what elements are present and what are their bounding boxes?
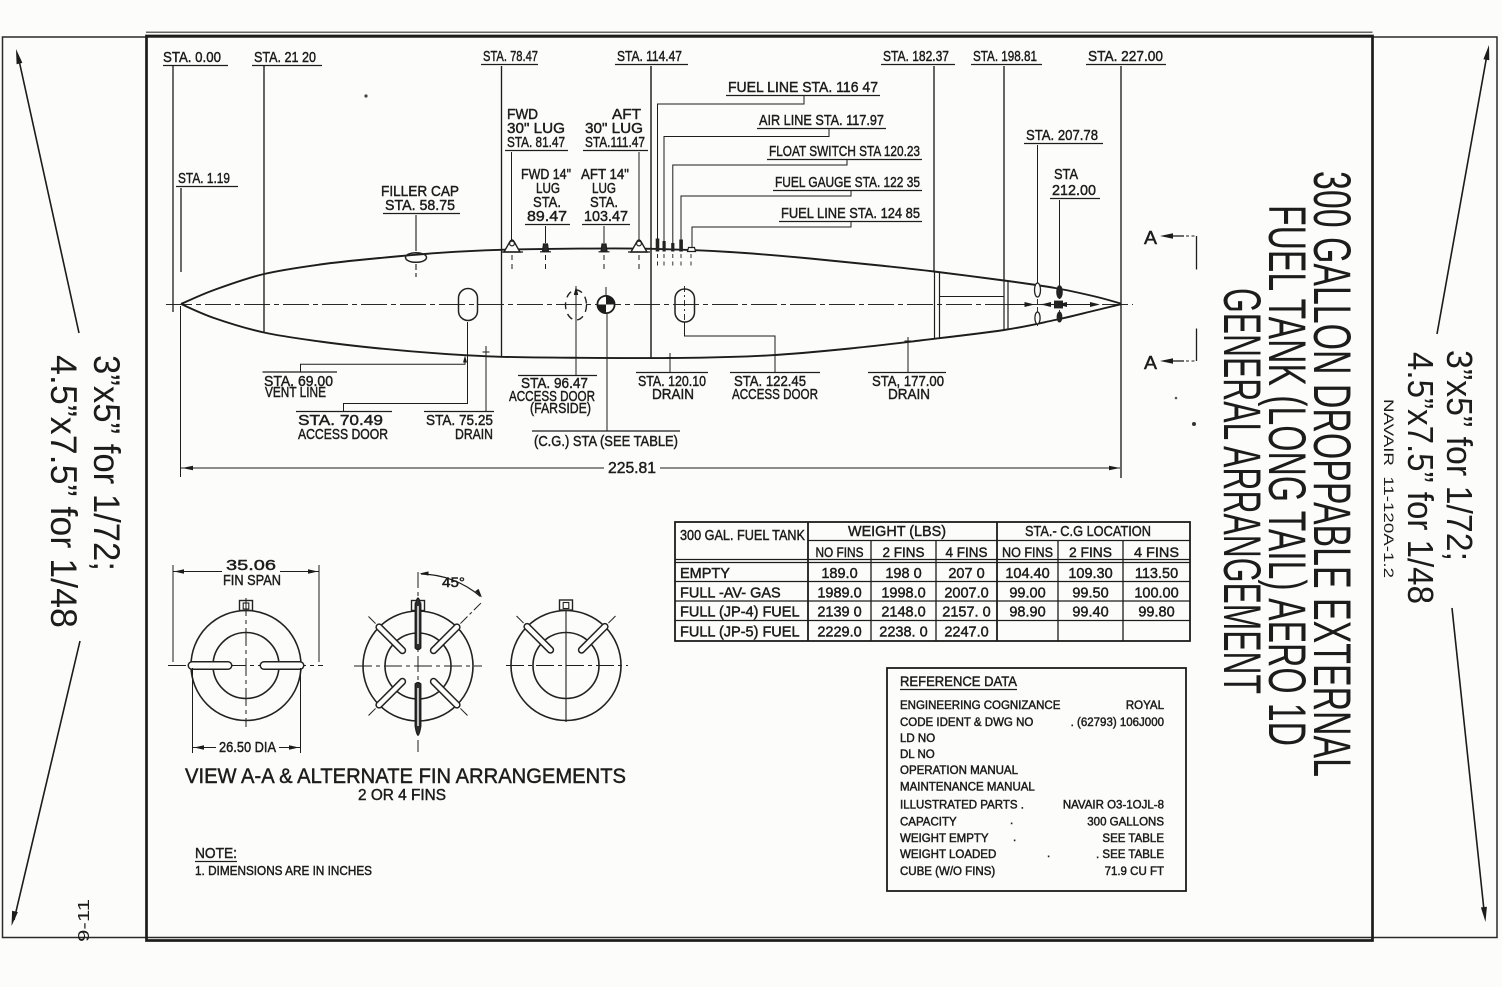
leader STA 96.47 with arrow [575, 291, 577, 376]
title line 2: FUEL TANK (LONG TAIL) AERO 1D [1257, 205, 1316, 746]
svg-text:99.50: 99.50 [1072, 586, 1108, 602]
svg-text:A: A [1144, 353, 1157, 373]
svg-text:STA.111.47: STA.111.47 [585, 134, 645, 151]
right margin note 3x5 for 1/72 [1439, 350, 1480, 561]
svg-text:NOTE:: NOTE: [195, 845, 237, 862]
svg-text:AIR LINE STA. 117.97: AIR LINE STA. 117.97 [759, 112, 884, 129]
svg-text:(C.G.) STA (SEE TABLE): (C.G.) STA (SEE TABLE) [534, 433, 678, 450]
svg-text:GENERAL ARRANGEMENT: GENERAL ARRANGEMENT [1212, 288, 1271, 694]
view2 tank rings [363, 611, 473, 721]
svg-text:71.9 CU FT: 71.9 CU FT [1105, 866, 1164, 878]
view2 diagonal centerlines [434, 602, 482, 650]
svg-text:2 OR 4 FINS: 2 OR 4 FINS [358, 787, 446, 804]
label STA. 120.10 DRAIN [636, 372, 708, 374]
svg-text:FUEL LINE STA. 116 47: FUEL LINE STA. 116 47 [728, 79, 878, 96]
svg-text:MAINTENANCE MANUAL: MAINTENANCE MANUAL [900, 782, 1035, 794]
label (C.G.) STA (SEE TABLE) [532, 430, 680, 432]
svg-text:STA. 81.47: STA. 81.47 [507, 134, 565, 151]
leader STA 212.00 [1059, 200, 1061, 286]
fitting fuel line 124.85 [688, 248, 696, 252]
leader STA 207.78 [1037, 145, 1039, 283]
leader STA 122.45 [685, 323, 776, 373]
svg-text:FUEL GAUGE STA. 122 35: FUEL GAUGE STA. 122 35 [775, 174, 920, 191]
svg-text:. (62793) 106J000: . (62793) 106J000 [1071, 717, 1164, 729]
reference data box [887, 668, 1186, 891]
left margin arrow up [19, 58, 80, 333]
view3 top lug [560, 600, 573, 610]
svg-text:STA. 1.19: STA. 1.19 [178, 170, 230, 187]
svg-text:2 FINS: 2 FINS [883, 544, 925, 560]
leader STA 120.10 [669, 353, 671, 373]
view1 crosshair horizontal [168, 665, 323, 667]
station line STA 198.81 [1003, 66, 1005, 281]
dimension line 225.81 right segment [660, 467, 1120, 469]
CG symbol [597, 296, 614, 313]
svg-text:DRAIN: DRAIN [652, 386, 694, 403]
title line 3: GENERAL ARRANGEMENT [1212, 288, 1271, 694]
svg-text:1989.0: 1989.0 [817, 586, 861, 602]
station line STA 1.19 [180, 188, 182, 272]
svg-text:212.00: 212.00 [1052, 182, 1096, 199]
dia extension lines [192, 668, 194, 753]
fitting fuel line 116.47 [656, 239, 660, 252]
main drawing frame [147, 36, 1373, 941]
leader STA 75.25 [485, 346, 487, 412]
svg-text:207 0: 207 0 [948, 566, 984, 582]
svg-text:STA. 182.37: STA. 182.37 [883, 48, 949, 65]
svg-text:OPERATION MANUAL: OPERATION MANUAL [900, 765, 1019, 777]
svg-text:2139 0: 2139 0 [817, 605, 861, 621]
weight table verticals [807, 522, 809, 641]
fin section lower STA 207.78 [1035, 312, 1040, 324]
svg-text:FUEL LINE STA. 124 85: FUEL LINE STA. 124 85 [781, 205, 920, 222]
NAVAIR 11-120A-1.2 reference [1381, 399, 1397, 578]
svg-text:ILLUSTRATED PARTS .: ILLUSTRATED PARTS . [900, 800, 1024, 812]
right margin arrow down [1452, 608, 1485, 915]
svg-text:98.90: 98.90 [1009, 605, 1045, 621]
CG dashed station circle [566, 290, 587, 320]
45 degree dimension arc [421, 574, 481, 597]
view2 vertical fin blade top [415, 598, 421, 650]
view1 tank rings [191, 611, 301, 721]
title line 1: 300 GALLON DROPPABLE EXTERNAL [1302, 171, 1361, 777]
svg-text:45°: 45° [442, 574, 465, 590]
svg-text:STA. 78.47: STA. 78.47 [483, 48, 538, 65]
lug AFT 30 symbol [631, 240, 647, 252]
fitting hidden stubs [657, 254, 659, 266]
leader STA 70.49 [344, 322, 468, 412]
svg-text:CUBE (W/O FINS): CUBE (W/O FINS) [900, 866, 995, 878]
svg-text:3”x5” for 1/72;: 3”x5” for 1/72; [86, 355, 127, 571]
label STA. 177.00 DRAIN [868, 372, 946, 374]
svg-text:26.50 DIA: 26.50 DIA [219, 739, 276, 756]
svg-text:STA. 21 20: STA. 21 20 [254, 49, 316, 66]
svg-text:DRAIN: DRAIN [455, 426, 493, 443]
svg-text:NAVAIR 11-120A-1.2: NAVAIR 11-120A-1.2 [1381, 399, 1397, 578]
svg-text:ROYAL: ROYAL [1126, 700, 1165, 712]
svg-text:NO FINS: NO FINS [816, 544, 864, 560]
svg-text:WEIGHT LOADED: WEIGHT LOADED [900, 849, 996, 861]
svg-text:STA. 0.00: STA. 0.00 [163, 49, 221, 66]
svg-text:ACCESS DOOR: ACCESS DOOR [298, 426, 388, 443]
lug FWD 30 symbol [504, 240, 520, 252]
tail joint band STA 182.37 [934, 272, 936, 339]
weight table double rule under headers [675, 559, 1190, 561]
svg-text:VIEW A-A & ALTERNATE FIN ARRAN: VIEW A-A & ALTERNATE FIN ARRANGEMENTS [185, 765, 626, 788]
lug AFT 14 symbol [601, 244, 607, 252]
view1 left fin [192, 661, 228, 670]
filler cap tick below [415, 264, 417, 277]
dimension line 225.81 left segment [181, 467, 604, 469]
svg-text:4 FINS: 4 FINS [946, 544, 988, 560]
svg-text:EMPTY: EMPTY [680, 566, 730, 582]
svg-text:CODE IDENT & DWG NO: CODE IDENT & DWG NO [900, 717, 1033, 729]
fitting air line 117.97 [663, 241, 666, 252]
view2 crosshair horizontal [354, 665, 482, 667]
tail joint band STA 198.81 [1003, 281, 1005, 331]
stray speck [1192, 422, 1196, 426]
tank centerline [166, 304, 1133, 306]
svg-text:100.00: 100.00 [1134, 586, 1178, 602]
leader STA 69.00 [301, 357, 466, 372]
svg-text:4.5”x7.5” for 1/48: 4.5”x7.5” for 1/48 [1400, 352, 1441, 604]
svg-text:198 0: 198 0 [885, 566, 921, 582]
svg-text:ACCESS DOOR: ACCESS DOOR [732, 386, 818, 403]
svg-text:DL NO: DL NO [900, 749, 935, 761]
svg-text:99.40: 99.40 [1072, 605, 1108, 621]
svg-text:A: A [1144, 228, 1157, 248]
label STA. 122.45 ACCESS DOOR [730, 372, 820, 374]
station line STA 182.37 [933, 66, 935, 272]
weight table header split line [808, 540, 1190, 542]
view3 crosshair horizontal [506, 665, 628, 667]
fin section upper STA 207.78 [1035, 283, 1041, 297]
svg-text:STA. 227.00: STA. 227.00 [1088, 48, 1163, 65]
fin dimension arrows on centerline [1008, 304, 1030, 306]
svg-text:225.81: 225.81 [608, 460, 656, 477]
view2 diagonal fins [434, 627, 457, 650]
svg-text:STA. 114.47: STA. 114.47 [617, 48, 682, 65]
svg-text:WEIGHT (LBS): WEIGHT (LBS) [848, 523, 946, 540]
view3 diagonal fins [582, 627, 605, 650]
lug leader FWD 30 [511, 152, 513, 240]
left margin note 3x5 for 1/72 [86, 355, 127, 571]
view3 diagonal centerlines [582, 615, 617, 650]
svg-text:1998.0: 1998.0 [881, 586, 925, 602]
svg-text:STA. 207.78: STA. 207.78 [1026, 127, 1098, 144]
svg-text:. SEE TABLE: . SEE TABLE [1096, 849, 1164, 861]
svg-text:WEIGHT EMPTY: WEIGHT EMPTY [900, 833, 989, 845]
svg-text:2238. 0: 2238. 0 [879, 625, 927, 641]
svg-text:REFERENCE DATA: REFERENCE DATA [900, 673, 1018, 689]
lug FWD 14 symbol [543, 244, 549, 252]
svg-text:104.40: 104.40 [1005, 566, 1049, 582]
svg-text:300 GALLONS: 300 GALLONS [1087, 817, 1164, 829]
station line STA 114.47 [650, 66, 652, 358]
svg-text:4.5”x7.5” for 1/48: 4.5”x7.5” for 1/48 [43, 355, 84, 628]
svg-text:STA. 58.75: STA. 58.75 [385, 197, 455, 214]
lug leader AFT 30 [638, 152, 640, 240]
left margin arrow down [14, 641, 80, 920]
tank outline upper [181, 248, 1121, 304]
leader CG [606, 314, 608, 431]
right margin arrow up [1437, 52, 1488, 334]
view3 vertical line [565, 610, 567, 722]
lug leader FWD 14 [545, 226, 547, 243]
svg-text:STA. 198.81: STA. 198.81 [973, 48, 1037, 65]
fitting float switch 120.23 [671, 243, 674, 252]
fin section lower STA 212.00 [1057, 312, 1062, 322]
svg-text:99.00: 99.00 [1009, 586, 1045, 602]
CG vertical dash line [575, 286, 577, 330]
svg-text:9-11: 9-11 [76, 899, 93, 942]
svg-text:FULL (JP-5) FUEL: FULL (JP-5) FUEL [680, 625, 800, 641]
label STA. 75.25 DRAIN [424, 411, 494, 413]
view2 vertical fin blade bottom [415, 683, 421, 736]
view3 tank rings [511, 611, 621, 721]
svg-text:STA: STA [1054, 166, 1078, 183]
filler cap ellipse [406, 253, 427, 263]
svg-text:ENGINEERING COGNIZANCE: ENGINEERING COGNIZANCE [900, 700, 1061, 712]
svg-text:.: . [1013, 832, 1016, 844]
svg-text:300 GAL. FUEL TANK: 300 GAL. FUEL TANK [680, 527, 805, 544]
weight table row rules [675, 581, 1190, 583]
station line STA 0.00 [172, 66, 174, 312]
svg-text:2 FINS: 2 FINS [1069, 544, 1112, 560]
fitting fuel gauge 122.35 [679, 240, 683, 252]
svg-text:.: . [1047, 848, 1050, 860]
svg-text:2247.0: 2247.0 [944, 625, 988, 641]
view2 top lug [412, 601, 425, 611]
label STA. 69.00 VENT LINE [263, 371, 338, 373]
station line STA 78.47 [501, 66, 503, 357]
svg-text:NO FINS: NO FINS [1002, 544, 1053, 560]
tank outline lower [181, 304, 1121, 358]
svg-text:2157. 0: 2157. 0 [942, 605, 990, 621]
svg-text:103.47: 103.47 [584, 208, 628, 225]
svg-text:2229.0: 2229.0 [817, 625, 861, 641]
left margin note 4.5x7.5 for 1/48 [43, 355, 84, 628]
view1 crosshair vertical [245, 598, 247, 727]
access door 122.45 vertical dash [684, 286, 686, 325]
label STA. 96.47 ACCESS DOOR (FARSIDE) [518, 375, 597, 377]
station line STA 227.00 [1120, 66, 1122, 478]
weight table outer box [675, 522, 1190, 641]
svg-text:DRAIN: DRAIN [888, 386, 930, 403]
svg-text:LD NO: LD NO [900, 733, 935, 745]
svg-text:99.80: 99.80 [1138, 605, 1174, 621]
svg-text:FIN SPAN: FIN SPAN [223, 572, 281, 589]
svg-text:SEE TABLE: SEE TABLE [1102, 833, 1164, 845]
svg-text:109.30: 109.30 [1068, 566, 1112, 582]
svg-text:3”x5” for 1/72;: 3”x5” for 1/72; [1439, 350, 1480, 561]
svg-text:FULL -AV- GAS: FULL -AV- GAS [680, 586, 781, 602]
svg-text:189.0: 189.0 [821, 566, 857, 582]
svg-text:NAVAIR O3-1OJL-8: NAVAIR O3-1OJL-8 [1063, 800, 1164, 812]
svg-text:2007.0: 2007.0 [944, 586, 988, 602]
view1 top lug [240, 601, 253, 611]
fin span extension lines [172, 565, 174, 662]
filler cap leader [415, 215, 417, 251]
lug hidden stubs below outline [511, 255, 513, 269]
station line STA 21.20 [263, 66, 265, 333]
dimension extension line left [180, 306, 182, 477]
fin section upper STA 212.00 [1057, 286, 1063, 298]
access door STA 122.45 stadium [675, 289, 695, 322]
leader STA 177.00 [907, 337, 909, 373]
svg-text:VENT LINE: VENT LINE [265, 384, 326, 401]
svg-text:STA.- C.G LOCATION: STA.- C.G LOCATION [1025, 523, 1151, 540]
view1 right fin [264, 661, 300, 670]
svg-text:.: . [1010, 815, 1013, 827]
tail horizontal stringer line [940, 296, 1004, 298]
page number 9-11 [76, 899, 93, 942]
view2 vertical centerline [417, 572, 419, 752]
label STA. 70.49 ACCESS DOOR [296, 411, 392, 413]
svg-text:FLOAT SWITCH STA 120.23: FLOAT SWITCH STA 120.23 [769, 143, 920, 160]
lug leader AFT 14 [603, 226, 605, 243]
svg-text:1. DIMENSIONS ARE IN INCHES: 1. DIMENSIONS ARE IN INCHES [195, 863, 372, 878]
svg-text:2148.0: 2148.0 [881, 605, 925, 621]
svg-text:(FARSIDE): (FARSIDE) [530, 400, 591, 417]
svg-text:4 FINS: 4 FINS [1134, 544, 1179, 560]
svg-text:FULL (JP-4) FUEL: FULL (JP-4) FUEL [680, 605, 800, 621]
svg-text:89.47: 89.47 [527, 208, 567, 225]
svg-text:113.50: 113.50 [1135, 566, 1178, 582]
access door STA 70.49 stadium [459, 289, 478, 321]
right margin note 4.5x7.5 for 1/48 [1400, 352, 1441, 604]
svg-text:CAPACITY: CAPACITY [900, 817, 957, 829]
